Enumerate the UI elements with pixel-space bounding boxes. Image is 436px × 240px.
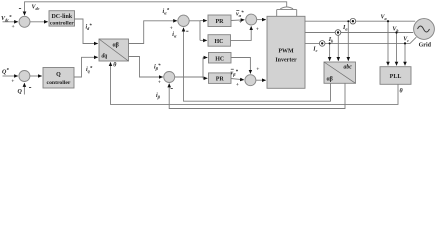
svg-text:HC: HC (215, 39, 224, 45)
svg-text:Vc: Vc (403, 36, 409, 43)
svg-text:Q*: Q* (2, 69, 9, 76)
svg-text:iα: iα (172, 32, 177, 39)
svg-text:HC: HC (215, 56, 224, 62)
svg-text:+: + (11, 79, 14, 85)
svg-text:Va: Va (381, 14, 387, 21)
svg-text:+: + (256, 26, 259, 32)
svg-text:dq: dq (102, 54, 108, 60)
svg-text:+: + (239, 19, 242, 25)
svg-text:abc: abc (344, 65, 353, 71)
svg-text:controller: controller (47, 80, 71, 86)
svg-text:iβ: iβ (156, 93, 161, 100)
svg-text:+: + (256, 66, 259, 72)
svg-text:PR: PR (216, 19, 225, 25)
svg-text:iβ*: iβ* (154, 64, 161, 71)
svg-text:vβ*: vβ* (231, 70, 239, 77)
svg-text:Q: Q (18, 89, 23, 95)
svg-text:Ia: Ia (342, 25, 347, 32)
svg-text:αβ: αβ (327, 77, 333, 83)
svg-text:vα*: vα* (236, 11, 244, 18)
svg-text:+: + (158, 79, 161, 85)
svg-text:+: + (12, 24, 15, 30)
svg-text:controller: controller (50, 21, 74, 27)
svg-text:αβ: αβ (113, 43, 119, 49)
svg-text:θ: θ (113, 62, 117, 68)
svg-text:+: + (236, 82, 239, 88)
svg-text:PWM: PWM (278, 49, 294, 55)
svg-text:Grid: Grid (419, 42, 432, 48)
svg-text:Ib: Ib (328, 37, 333, 44)
svg-text:+: + (170, 26, 173, 32)
svg-text:Q: Q (56, 72, 61, 78)
svg-text:PR: PR (216, 77, 225, 83)
svg-text:θ: θ (400, 89, 404, 95)
svg-text:Vdc: Vdc (32, 5, 40, 12)
svg-text:id*: id* (86, 24, 93, 31)
svg-text:DC-link: DC-link (51, 14, 72, 20)
svg-text:Vb: Vb (392, 26, 398, 33)
svg-text:iq*: iq* (86, 67, 93, 74)
svg-text:Ic: Ic (312, 47, 317, 54)
svg-text:PLL: PLL (390, 74, 402, 80)
svg-text:iα*: iα* (163, 9, 170, 16)
svg-text:Inverter: Inverter (275, 58, 297, 64)
